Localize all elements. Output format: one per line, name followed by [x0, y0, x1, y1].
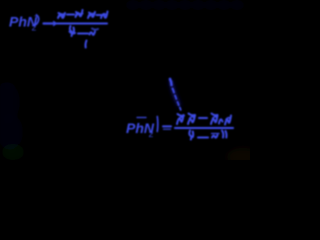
dash — [199, 117, 207, 119]
dash A — [67, 14, 74, 16]
above-line groups — [177, 114, 231, 125]
bracket — [156, 117, 159, 132]
right cluster — [211, 116, 218, 125]
main bond line — [175, 127, 233, 129]
below-line groups — [189, 131, 226, 140]
macron over text — [137, 117, 146, 119]
blob C — [88, 12, 95, 18]
main horizontal bond line — [57, 22, 107, 24]
faint warm glow bottom-right corner — [227, 148, 259, 166]
above-line groups — [58, 10, 108, 18]
blob A — [58, 13, 65, 18]
sub blob — [90, 32, 96, 35]
density strokes — [179, 117, 184, 119]
density strokes — [59, 15, 64, 17]
blob B — [76, 10, 83, 17]
faint left-edge blobs — [0, 54, 24, 160]
tick — [85, 41, 86, 48]
dash C — [97, 14, 102, 16]
faint top-edge scallop row — [126, 0, 244, 10]
faint below right — [92, 29, 98, 30]
blob D — [101, 12, 108, 19]
sub dash — [78, 33, 88, 35]
below-line vertical group — [70, 26, 99, 48]
arrow — [44, 22, 57, 26]
glow layer — [44, 22, 108, 25]
equals dash — [163, 125, 171, 127]
svg-text:2: 2 — [149, 129, 154, 139]
